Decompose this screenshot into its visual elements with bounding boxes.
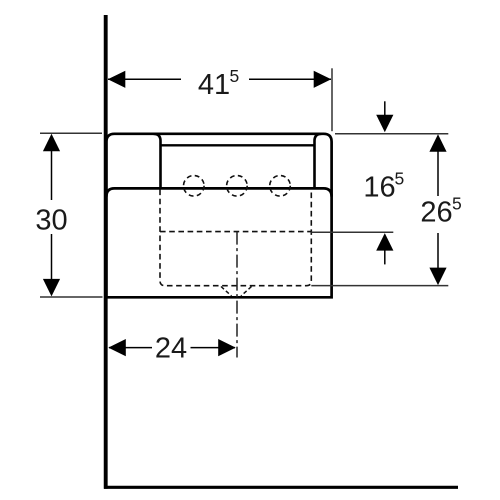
dim 16.5: upper arrow tail bbox=[384, 101, 386, 116]
dim 24: right arrowhead bbox=[218, 339, 236, 356]
hidden mid line (dashed) bbox=[160, 231, 311, 233]
dim 41.5: left arrowhead bbox=[108, 71, 126, 88]
dim 30: bottom arrowhead (down) bbox=[43, 279, 60, 297]
svg-text:30: 30 bbox=[35, 205, 67, 237]
svg-text:41: 41 bbox=[198, 69, 230, 101]
dim 30: dimension line bbox=[51, 150, 53, 200]
inner bowl right edge bbox=[315, 134, 322, 188]
dim 24: dimension line bbox=[109, 347, 152, 349]
svg-text:5: 5 bbox=[395, 168, 405, 188]
washbasin outer contour bbox=[106, 134, 331, 297]
inner bowl left edge bbox=[154, 134, 161, 188]
svg-text:26: 26 bbox=[420, 197, 452, 229]
svg-text:5: 5 bbox=[452, 194, 462, 214]
svg-text:24: 24 bbox=[155, 332, 187, 364]
hidden siphon box (dashed) bbox=[160, 190, 311, 286]
dim 41.5: dimension line bbox=[108, 78, 181, 80]
dim 26.5: top arrowhead (up) bbox=[429, 134, 446, 152]
tap hole circle 2 bbox=[227, 176, 248, 197]
dim 16.5: top extension line bbox=[335, 133, 448, 135]
tap hole circle 1 bbox=[184, 176, 205, 197]
svg-text:16: 16 bbox=[363, 171, 395, 203]
dim 41.5: right arrowhead bbox=[314, 71, 332, 88]
dim 30: top arrowhead (up) bbox=[43, 134, 60, 152]
dim 30: bottom extension line bbox=[40, 296, 103, 298]
inner rim back line bbox=[161, 144, 314, 146]
wall line bbox=[104, 15, 108, 489]
floor line bbox=[104, 486, 458, 489]
dim 16.5: mid extension line bbox=[311, 231, 393, 233]
svg-text:5: 5 bbox=[230, 66, 240, 86]
dim 16.5: lower arrowhead (up) bbox=[376, 233, 393, 251]
dim 26.5: dimension line bbox=[437, 150, 439, 196]
dim 26.5: bottom arrowhead (down) bbox=[429, 268, 446, 286]
drain funnel right (dashed) bbox=[241, 287, 252, 297]
center line (dash-dot) bbox=[236, 232, 238, 358]
dim 16.5: lower arrow tail bbox=[384, 249, 386, 265]
tap hole circle 3 bbox=[270, 176, 291, 197]
basin ledge line (rim bottom) bbox=[106, 188, 331, 196]
dim 16.5: upper arrowhead (down) bbox=[376, 115, 393, 133]
dim 41.5: extension line right bbox=[331, 68, 333, 131]
dim 26.5: bottom extension line bbox=[311, 285, 448, 287]
dim 24: left arrowhead bbox=[108, 339, 126, 356]
drain funnel left (dashed) bbox=[221, 287, 232, 297]
dim 30: top extension line bbox=[40, 132, 102, 134]
